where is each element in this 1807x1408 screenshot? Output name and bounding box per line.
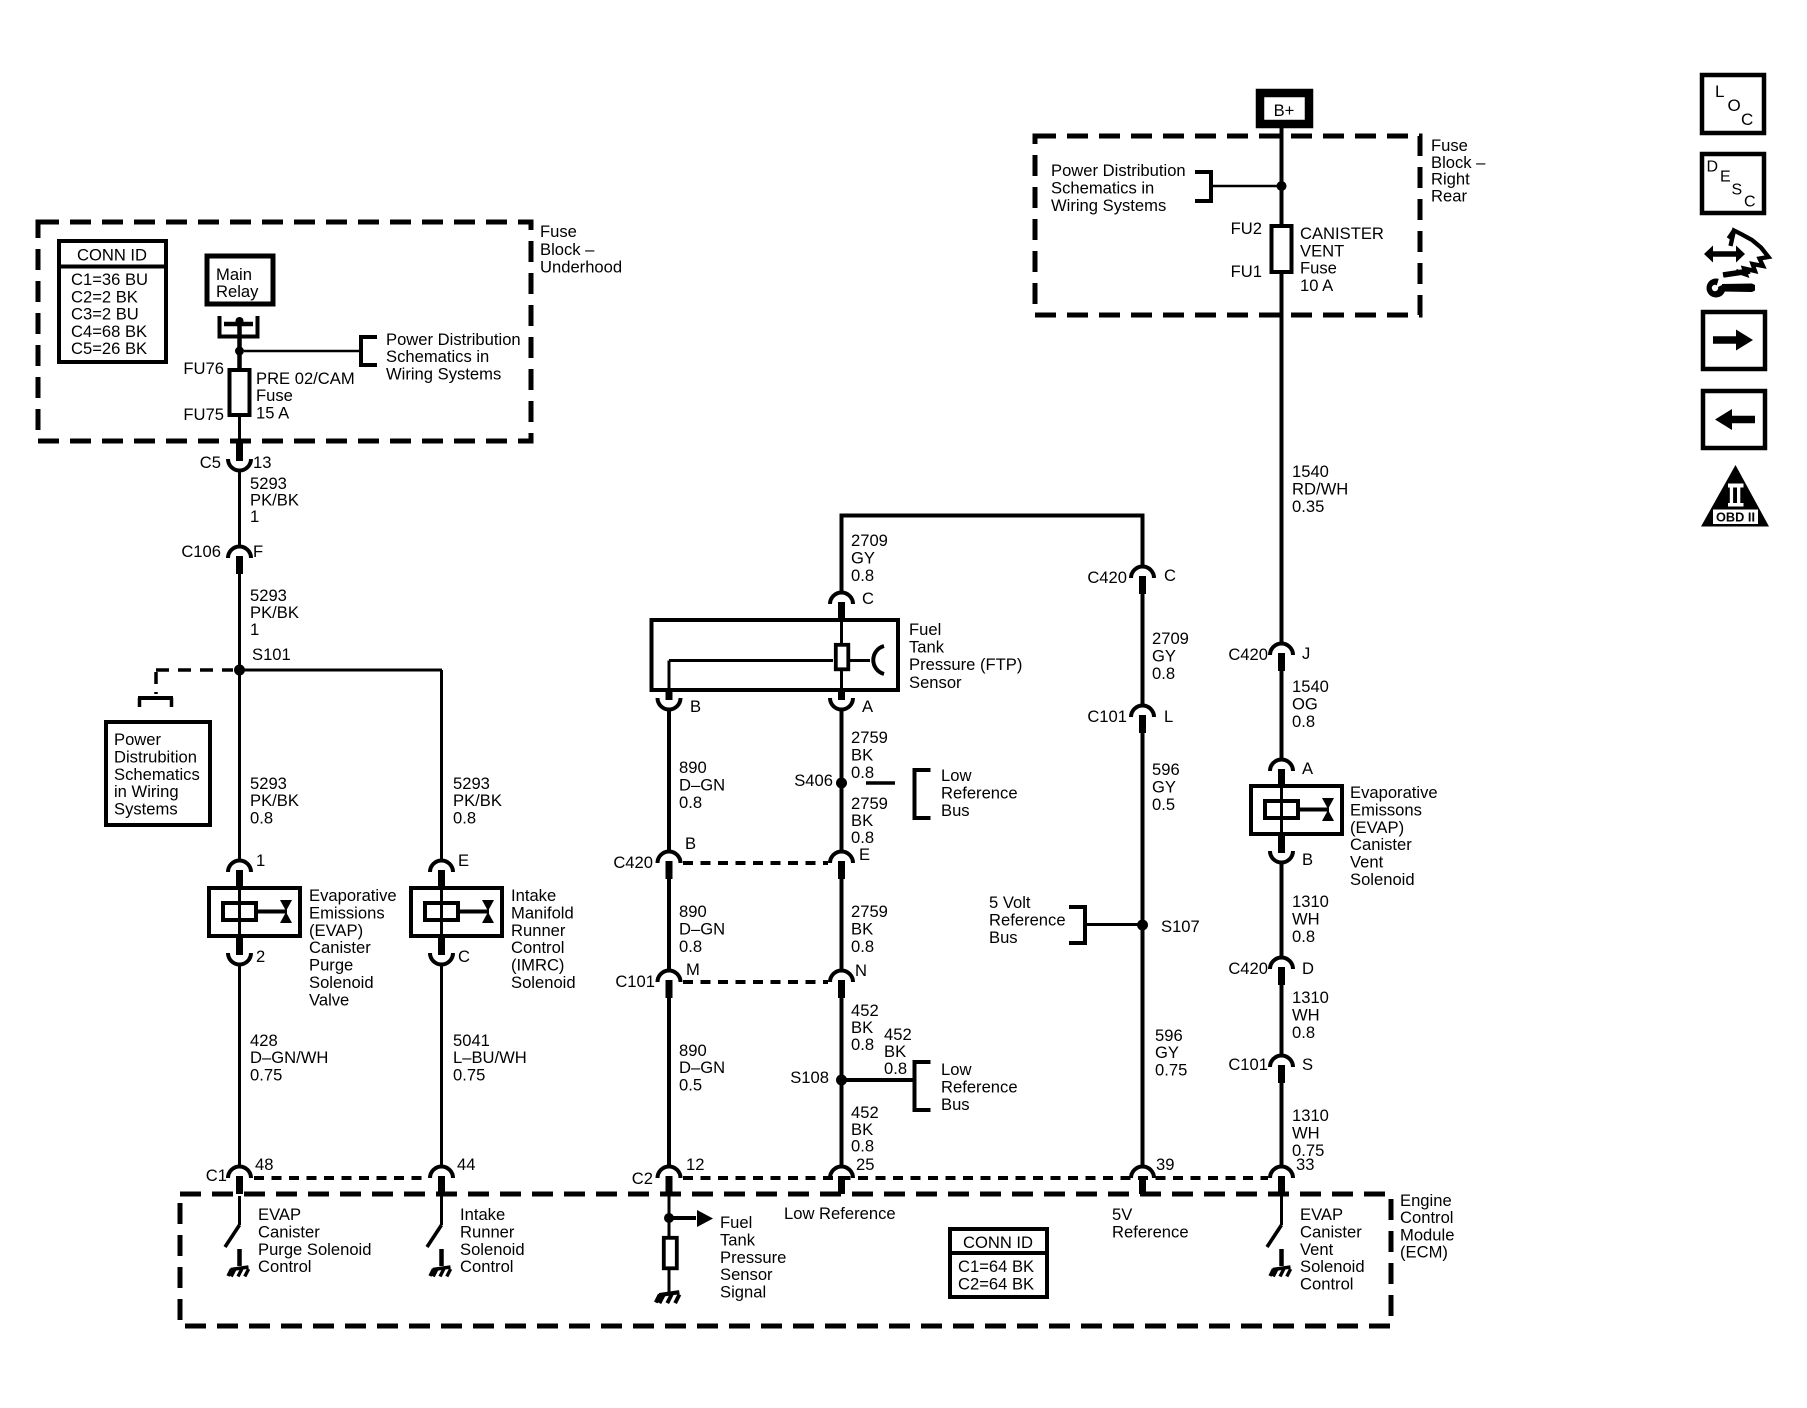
- wire: dashed connector row C420: [683, 861, 828, 865]
- svg-text:C2=64 BK: C2=64 BK: [958, 1275, 1034, 1294]
- label: C5: [200, 453, 221, 472]
- svg-text:D–GN: D–GN: [679, 920, 725, 939]
- svg-text:Runner: Runner: [511, 921, 566, 940]
- power distribution note box: [106, 722, 210, 825]
- wire: fuse to C5: [238, 415, 241, 445]
- label: 2759 BK 0.8 (upper): [851, 728, 888, 782]
- label: C420 (C): [1087, 568, 1127, 587]
- svg-text:Underhood: Underhood: [540, 258, 622, 277]
- svg-text:0.8: 0.8: [851, 1137, 874, 1156]
- wire: bracket to S107: [1085, 923, 1143, 926]
- connector pin E (IMRC solenoid): [430, 861, 453, 889]
- svg-text:Vent: Vent: [1300, 1240, 1334, 1259]
- svg-text:S108: S108: [790, 1068, 829, 1087]
- battery feed B+ box: [1260, 93, 1309, 124]
- connector C420 pin C: [1131, 567, 1154, 595]
- FTP sensor internal low-ref line: [669, 661, 833, 689]
- svg-text:Evaporative: Evaporative: [1350, 783, 1438, 802]
- svg-text:(EVAP): (EVAP): [1350, 818, 1404, 837]
- label: FU75: [183, 405, 224, 424]
- svg-text:C3=2 BU: C3=2 BU: [71, 305, 139, 324]
- svg-text:C1=36 BU: C1=36 BU: [71, 270, 148, 289]
- svg-text:O: O: [1728, 96, 1741, 115]
- label: D (C420): [1302, 959, 1314, 978]
- svg-text:Sensor: Sensor: [720, 1265, 773, 1284]
- svg-text:Low: Low: [941, 1060, 972, 1079]
- svg-text:Distrubition: Distrubition: [114, 747, 197, 766]
- label: 1310 WH 0.8 (lower): [1292, 988, 1329, 1042]
- svg-text:5041: 5041: [453, 1031, 490, 1050]
- svg-text:Rear: Rear: [1431, 186, 1467, 205]
- svg-text:Power: Power: [114, 730, 162, 749]
- svg-text:15 A: 15 A: [256, 403, 290, 422]
- node: junction at right fuse block: [1277, 181, 1287, 191]
- icon: forward arrow box: [1703, 312, 1765, 369]
- connector pin A (FTP sensor): [830, 689, 853, 710]
- svg-text:0.8: 0.8: [453, 808, 476, 827]
- wire: 1310 WH 0.75 (C101 S to ECM 33): [1280, 1083, 1284, 1168]
- label: Power Distribution Schematics in Wiring Systems (underhood): [386, 330, 521, 383]
- svg-text:0.8: 0.8: [1152, 664, 1175, 683]
- svg-text:5293: 5293: [250, 774, 287, 793]
- connector C1 pin 48: [228, 1167, 251, 1195]
- wire: 2759 BK 0.8 (S406 to C420 E): [840, 783, 844, 853]
- ECM driver: EVAP canister vent solenoid control (switch+ground): [1267, 1196, 1291, 1277]
- svg-text:0.8: 0.8: [884, 1059, 907, 1078]
- svg-text:596: 596: [1152, 760, 1180, 779]
- svg-text:0.8: 0.8: [679, 937, 702, 956]
- ECM driver: intake runner solenoid control (switch+ground): [427, 1196, 451, 1277]
- label: Low Reference Bus (S108): [941, 1060, 1018, 1114]
- svg-text:(ECM): (ECM): [1400, 1243, 1448, 1262]
- label: 1310 WH 0.8 (upper): [1292, 892, 1329, 946]
- connector pin 1 (EVAP purge solenoid): [228, 861, 251, 889]
- svg-text:C5=26 BK: C5=26 BK: [71, 339, 147, 358]
- svg-text:A: A: [862, 697, 874, 716]
- wire: 452 BK 0.8 (S108 to ECM 25): [840, 1080, 844, 1168]
- label: A (FTP): [862, 697, 874, 716]
- EVAP canister purge solenoid valve (coil+valve): [209, 888, 300, 936]
- node S107 (splice): [1137, 920, 1148, 931]
- svg-text:B+: B+: [1274, 101, 1295, 120]
- ECM driver: EVAP canister purge solenoid control (switch+ground): [225, 1196, 249, 1277]
- label: 2: [256, 947, 265, 966]
- label: C420 (J): [1228, 645, 1268, 664]
- svg-text:Bus: Bus: [941, 801, 970, 820]
- svg-text:33: 33: [1296, 1155, 1314, 1174]
- node: junction under main relay: [235, 347, 244, 356]
- label: 452 BK 0.8 (branch): [884, 1025, 912, 1078]
- svg-text:596: 596: [1155, 1026, 1183, 1045]
- reference bracket (power distribution right): [1195, 170, 1213, 203]
- svg-text:Solenoid: Solenoid: [460, 1240, 525, 1259]
- svg-text:PK/BK: PK/BK: [250, 791, 299, 810]
- wire: S108 to low reference bus bracket: [842, 1078, 915, 1082]
- svg-text:GY: GY: [1152, 646, 1176, 665]
- svg-text:2759: 2759: [851, 728, 888, 747]
- svg-text:Tank: Tank: [909, 638, 945, 657]
- svg-text:FU76: FU76: [183, 359, 224, 378]
- svg-text:1310: 1310: [1292, 988, 1329, 1007]
- svg-text:1: 1: [250, 507, 259, 526]
- icon: OBD II triangle: [1701, 465, 1769, 527]
- label: FU76: [183, 359, 224, 378]
- label: M (C101): [686, 960, 700, 979]
- label: 5 Volt Reference Bus: [989, 893, 1066, 947]
- wire: dashed connector row C101: [683, 980, 828, 984]
- svg-text:Control: Control: [1400, 1208, 1454, 1227]
- FTP sensor internal wire: [840, 622, 843, 688]
- connector C101 pin M: [658, 971, 681, 999]
- svg-text:Control: Control: [511, 938, 565, 957]
- svg-text:(EVAP): (EVAP): [309, 921, 363, 940]
- svg-text:N: N: [855, 961, 867, 980]
- connector C101 pin S: [1270, 1056, 1293, 1084]
- wire: 1540 OG 0.8 (C420 J to vent solenoid A): [1280, 671, 1284, 761]
- svg-text:Runner: Runner: [460, 1222, 515, 1241]
- label: B (FTP): [690, 697, 701, 716]
- wire: junction to reference bracket: [244, 350, 361, 353]
- svg-text:CONN ID: CONN ID: [963, 1233, 1033, 1252]
- svg-text:FU1: FU1: [1231, 262, 1262, 281]
- label: E (C420): [859, 845, 870, 864]
- svg-text:EVAP: EVAP: [1300, 1205, 1343, 1224]
- engine control module (dashed box): [180, 1194, 1391, 1326]
- label: L (C101): [1164, 707, 1173, 726]
- svg-text:C1=64 BK: C1=64 BK: [958, 1257, 1034, 1276]
- icon: DESC box: [1702, 154, 1764, 213]
- label: 2709 GY 0.8 (FTP C): [851, 531, 888, 585]
- label: C420 (row): [613, 853, 653, 872]
- wire: S101 to IMRC branch (horizontal): [240, 669, 443, 672]
- label: PRE 02/CAM Fuse 15 A: [256, 369, 355, 422]
- wire: 2759 BK 0.8 (A to S406): [840, 710, 844, 784]
- svg-text:44: 44: [457, 1155, 475, 1174]
- connector C2 pin 25: [830, 1167, 853, 1195]
- svg-text:1540: 1540: [1292, 462, 1329, 481]
- connector pin C (IMRC solenoid): [430, 937, 453, 965]
- svg-text:Low: Low: [941, 766, 972, 785]
- label: 596 GY 0.75: [1155, 1026, 1187, 1079]
- svg-text:E: E: [859, 845, 870, 864]
- connector C106 pin F: [228, 547, 251, 575]
- label: 25: [856, 1155, 874, 1174]
- label: C101 (S): [1228, 1055, 1268, 1074]
- label: 5293 PK/BK 0.8 (purge branch): [250, 774, 299, 827]
- icon: back arrow box: [1703, 391, 1765, 448]
- EVAP canister vent solenoid (coil+valve): [1251, 786, 1342, 834]
- icon: LOC box: [1702, 75, 1764, 133]
- label: 2709 GY 0.8 (right): [1152, 629, 1189, 683]
- svg-text:1310: 1310: [1292, 1106, 1329, 1125]
- svg-text:Power Distribution: Power Distribution: [386, 330, 521, 349]
- svg-text:0.8: 0.8: [1292, 927, 1315, 946]
- svg-text:D: D: [1707, 159, 1719, 176]
- svg-text:0.75: 0.75: [250, 1065, 282, 1084]
- svg-text:Purge Solenoid: Purge Solenoid: [258, 1240, 371, 1259]
- svg-text:FU2: FU2: [1231, 219, 1262, 238]
- wire: down to FTP pin C: [840, 514, 844, 595]
- svg-text:S: S: [1302, 1055, 1313, 1074]
- svg-text:Fuel: Fuel: [720, 1213, 752, 1232]
- svg-text:0.5: 0.5: [1152, 795, 1175, 814]
- svg-text:5 Volt: 5 Volt: [989, 893, 1031, 912]
- svg-text:Solenoid: Solenoid: [1300, 1257, 1365, 1276]
- wire: 5041 L-BU/WH 0.75: [440, 964, 443, 1168]
- wire: 890 D-GN 0.8 (B to C420): [667, 710, 671, 854]
- wire: dashed to power distribution note: [156, 670, 233, 694]
- svg-text:Canister: Canister: [1300, 1222, 1362, 1241]
- svg-text:0.5: 0.5: [679, 1075, 702, 1094]
- svg-text:GY: GY: [851, 549, 875, 568]
- connector C101 pin N: [830, 971, 853, 999]
- wire: 428 D-GN/WH 0.75: [238, 964, 241, 1168]
- svg-text:0.8: 0.8: [250, 808, 273, 827]
- relay terminal symbol: [220, 316, 258, 351]
- label: EVAP Canister Purge Solenoid Control: [258, 1205, 371, 1276]
- svg-text:5V: 5V: [1112, 1205, 1132, 1224]
- wire: 2709 GY 0.8 (C420 C to C101 L): [1141, 594, 1145, 707]
- svg-text:13: 13: [253, 453, 271, 472]
- svg-text:S406: S406: [794, 771, 833, 790]
- label: C: [862, 589, 874, 608]
- svg-text:C101: C101: [615, 972, 655, 991]
- svg-text:C4=68 BK: C4=68 BK: [71, 322, 147, 341]
- svg-text:0.8: 0.8: [1292, 1023, 1315, 1042]
- label: 44: [457, 1155, 475, 1174]
- label: B (C420): [685, 834, 696, 853]
- connector pin A (vent solenoid): [1270, 760, 1293, 788]
- svg-text:C420: C420: [1228, 645, 1268, 664]
- svg-text:VENT: VENT: [1300, 241, 1344, 260]
- svg-text:Tank: Tank: [720, 1230, 756, 1249]
- label: S101: [252, 645, 291, 664]
- label: J (C420): [1302, 644, 1310, 663]
- wire: 890 D-GN 0.8 (C420 B to C101 M): [667, 879, 671, 972]
- svg-text:Vent: Vent: [1350, 853, 1384, 872]
- svg-text:Intake: Intake: [460, 1205, 505, 1224]
- svg-text:C106: C106: [181, 542, 221, 561]
- svg-text:Canister: Canister: [1350, 835, 1412, 854]
- svg-text:10 A: 10 A: [1300, 276, 1334, 295]
- fuel tank pressure sensor box: [652, 620, 899, 690]
- IMRC solenoid (coil+valve): [411, 888, 502, 936]
- svg-text:Schematics in: Schematics in: [386, 347, 489, 366]
- svg-text:C420: C420: [613, 853, 653, 872]
- label: 48: [255, 1155, 273, 1174]
- svg-text:Fuse: Fuse: [256, 386, 293, 405]
- fuse PRE O2/CAM (FU76/FU75): [230, 370, 250, 415]
- label: C101 (L): [1087, 707, 1127, 726]
- svg-text:0.75: 0.75: [453, 1065, 485, 1084]
- svg-text:Control: Control: [460, 1257, 514, 1276]
- connector pin 2 (EVAP purge solenoid): [228, 937, 251, 965]
- label: S406: [794, 771, 833, 790]
- svg-text:Relay: Relay: [216, 282, 259, 301]
- wire: 2709 GY 0.8 (top horizontal): [842, 514, 1145, 518]
- svg-text:Wiring Systems: Wiring Systems: [386, 364, 501, 383]
- svg-text:BK: BK: [851, 746, 873, 765]
- label: Main Relay: [216, 265, 259, 301]
- svg-text:F: F: [253, 542, 263, 561]
- node S406 (splice): [836, 778, 847, 789]
- label: 1: [256, 851, 265, 870]
- svg-text:2: 2: [256, 947, 265, 966]
- label: 5293 PK/BK 0.8 (IMRC branch): [453, 774, 502, 827]
- svg-text:Low Reference: Low Reference: [784, 1204, 896, 1223]
- svg-text:Valve: Valve: [309, 990, 349, 1009]
- wire: S101 down to EVAP purge solenoid: [238, 670, 241, 862]
- svg-text:L: L: [1164, 707, 1173, 726]
- svg-text:Canister: Canister: [258, 1222, 320, 1241]
- connector C1 pin 44: [430, 1167, 453, 1195]
- svg-text:C2: C2: [632, 1169, 653, 1188]
- svg-text:A: A: [1302, 759, 1314, 778]
- label: Engine Control Module (ECM): [1400, 1191, 1454, 1262]
- label: 2759 BK 0.8 (third): [851, 902, 888, 956]
- label: Evaporative Emissons (EVAP) Canister Vent Solenoid: [1350, 783, 1438, 889]
- svg-text:C420: C420: [1087, 568, 1127, 587]
- label: 596 GY 0.5: [1152, 760, 1180, 814]
- wire: 890 D-GN 0.5 (C101 M to ECM 12): [667, 998, 671, 1168]
- svg-text:Reference: Reference: [941, 783, 1018, 802]
- svg-text:WH: WH: [1292, 910, 1320, 929]
- label: CANISTER VENT Fuse 10 A: [1300, 224, 1384, 295]
- label: 1310 WH 0.75: [1292, 1106, 1329, 1160]
- svg-text:39: 39: [1156, 1155, 1174, 1174]
- svg-text:Schematics: Schematics: [114, 765, 200, 784]
- wire: 5293 PK/BK 1 (C106 to S101): [238, 574, 241, 670]
- label: 39: [1156, 1155, 1174, 1174]
- svg-text:Signal: Signal: [720, 1283, 766, 1302]
- label: C101 (row): [615, 972, 655, 991]
- svg-text:Main: Main: [216, 265, 252, 284]
- svg-text:Emissons: Emissons: [1350, 800, 1422, 819]
- svg-text:Engine: Engine: [1400, 1191, 1452, 1210]
- svg-text:2709: 2709: [1152, 629, 1189, 648]
- svg-text:in Wiring: in Wiring: [114, 782, 179, 801]
- svg-text:E: E: [1720, 169, 1731, 186]
- svg-text:Pressure: Pressure: [720, 1248, 786, 1267]
- bracket: 5 volt reference bus: [1069, 905, 1087, 945]
- label: 1540 RD/WH 0.35: [1292, 462, 1348, 516]
- svg-text:12: 12: [686, 1155, 704, 1174]
- FTP sensor wiper arc: [850, 646, 884, 674]
- connector C2 pin 33: [1270, 1167, 1293, 1195]
- wire: 1310 WH 0.8 (B to C420 D): [1280, 862, 1284, 959]
- svg-text:C: C: [458, 947, 470, 966]
- svg-text:M: M: [686, 960, 700, 979]
- svg-text:OBD II: OBD II: [1716, 510, 1755, 525]
- label: C: [458, 947, 470, 966]
- label: 428 D-GN/WH 0.75: [250, 1031, 328, 1084]
- label: FU1: [1231, 262, 1262, 281]
- svg-text:0.8: 0.8: [851, 1035, 874, 1054]
- icon: schematic jump (arrow + part + wrench): [1704, 231, 1769, 298]
- svg-text:Power Distribution: Power Distribution: [1051, 161, 1186, 180]
- svg-text:CONN ID: CONN ID: [77, 246, 147, 265]
- svg-text:Evaporative: Evaporative: [309, 886, 397, 905]
- fuse block - underhood (dashed box): [38, 222, 531, 441]
- wire: 1310 WH 0.8 (C420 D to C101 S): [1280, 985, 1284, 1057]
- FTP sensor resistive element: [836, 645, 849, 670]
- svg-text:Module: Module: [1400, 1225, 1454, 1244]
- label: C1: [206, 1166, 227, 1185]
- svg-text:Solenoid: Solenoid: [1350, 870, 1415, 889]
- label: EVAP Canister Vent Solenoid Control: [1300, 1205, 1365, 1294]
- connector C5 pin 13: [228, 443, 251, 471]
- label: Evaporative Emissions (EVAP) Canister Purge Solenoid Valve: [309, 886, 397, 1009]
- svg-text:C: C: [862, 589, 874, 608]
- svg-text:Systems: Systems: [114, 800, 178, 819]
- svg-text:C1: C1: [206, 1166, 227, 1185]
- label: C2: [632, 1169, 653, 1188]
- wire: down to C420 C: [1141, 514, 1145, 569]
- label: Low Reference (ECM): [784, 1204, 896, 1223]
- svg-text:GY: GY: [1155, 1043, 1179, 1062]
- label: Fuse Block - Underhood: [540, 222, 622, 277]
- label: 890 D-GN 0.8 (upper): [679, 758, 725, 812]
- wire: 596 GY 0.5 (C101 L to S107): [1141, 733, 1145, 925]
- svg-text:890: 890: [679, 758, 707, 777]
- svg-text:0.8: 0.8: [851, 937, 874, 956]
- label: 890 D-GN 0.5: [679, 1041, 725, 1094]
- svg-text:0.8: 0.8: [851, 566, 874, 585]
- label: S (C101): [1302, 1055, 1313, 1074]
- svg-text:S107: S107: [1161, 917, 1200, 936]
- label: C (C420): [1164, 566, 1176, 585]
- svg-text:C5: C5: [200, 453, 221, 472]
- svg-text:B: B: [685, 834, 696, 853]
- svg-text:890: 890: [679, 902, 707, 921]
- wire: dashed connector row C1: [254, 1176, 428, 1180]
- svg-text:E: E: [458, 851, 469, 870]
- svg-text:C101: C101: [1087, 707, 1127, 726]
- svg-text:428: 428: [250, 1031, 278, 1050]
- svg-text:Schematics in: Schematics in: [1051, 178, 1154, 197]
- label: E: [458, 851, 469, 870]
- svg-text:1: 1: [250, 620, 259, 639]
- svg-text:25: 25: [856, 1155, 874, 1174]
- label: Power Distrubition Schematics in Wiring Systems: [114, 730, 200, 819]
- fuse block - right rear (dashed box): [1035, 136, 1420, 315]
- label: 5293 PK/BK 1 (upper): [250, 474, 299, 526]
- svg-text:PRE 02/CAM: PRE 02/CAM: [256, 369, 355, 388]
- fuse CANISTER VENT (FU2/FU1): [1272, 226, 1292, 272]
- wire: 1540 RD/WH 0.35: [1280, 272, 1284, 645]
- svg-text:Fuse: Fuse: [540, 222, 577, 241]
- wire: 596 GY 0.75 (S107 to ECM 39): [1141, 925, 1145, 1168]
- svg-text:GY: GY: [1152, 778, 1176, 797]
- label: 890 D-GN 0.8 (lower): [679, 902, 725, 956]
- svg-text:0.8: 0.8: [851, 763, 874, 782]
- wire: 452 BK 0.8 (C101 N to S108): [840, 998, 844, 1080]
- svg-text:Control: Control: [258, 1257, 312, 1276]
- wire: 5293 PK/BK 1 (C5 to C106): [238, 470, 241, 548]
- label: B (vent): [1302, 850, 1313, 869]
- svg-text:D–GN/WH: D–GN/WH: [250, 1048, 328, 1067]
- svg-text:Reference: Reference: [989, 910, 1066, 929]
- svg-text:Solenoid: Solenoid: [511, 973, 576, 992]
- svg-text:C: C: [1741, 110, 1753, 129]
- svg-text:B: B: [1302, 850, 1313, 869]
- svg-text:WH: WH: [1292, 1124, 1320, 1143]
- svg-text:J: J: [1302, 644, 1310, 663]
- node S108 (splice): [836, 1075, 847, 1086]
- svg-text:B: B: [690, 697, 701, 716]
- label: 452 BK 0.8 (above S108): [851, 1001, 879, 1054]
- label: F: [253, 542, 263, 561]
